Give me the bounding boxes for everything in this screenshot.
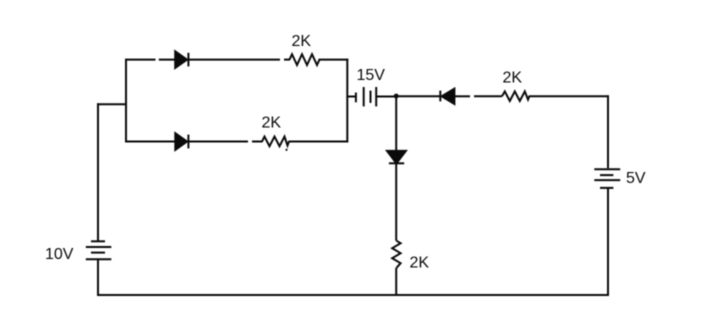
wire merge vertical (right side of diode branches) xyxy=(346,59,348,143)
wire top branch segment 4 xyxy=(284,59,290,61)
diode D4 (middle branch, pointing down) xyxy=(387,151,406,163)
wire top branch segment 1 xyxy=(125,59,156,61)
wire right rail lower xyxy=(607,188,609,296)
svg-text:5V: 5V xyxy=(626,170,646,187)
resistor R3 2K (top-right branch) xyxy=(502,91,529,101)
node junction dot xyxy=(394,94,399,99)
resistor R2 2K (lower branch) xyxy=(262,137,289,147)
wire left rail vertical (to 10V battery) xyxy=(97,103,99,240)
wire top-right branch segment 2 xyxy=(454,95,470,97)
wire top-right branch segment 4 xyxy=(529,95,609,97)
svg-text:2K: 2K xyxy=(262,115,282,132)
wire middle branch center xyxy=(395,163,397,240)
svg-text:10V: 10V xyxy=(45,246,74,263)
wire top-right branch segment 3 xyxy=(474,95,502,97)
wire middle branch lower xyxy=(395,268,397,296)
wire lower branch segment 2 xyxy=(188,141,248,143)
diode D3 (top-right branch, pointing left) xyxy=(440,89,454,104)
diode D1 (top branch, pointing right) xyxy=(175,51,188,68)
wire top branch segment 3 xyxy=(188,59,280,61)
battery B3 5V xyxy=(594,169,620,188)
wire split vertical (left side of diode branches) xyxy=(125,59,127,143)
resistor R1 2K (top branch) xyxy=(290,54,320,65)
wire right rail upper xyxy=(607,95,609,168)
wire bottom rail xyxy=(97,294,609,296)
diode D2 (lower branch, pointing right) xyxy=(175,133,188,150)
node stray mark below R2 xyxy=(285,149,287,151)
wire top-right branch segment 1 xyxy=(396,95,440,97)
wire lower branch segment 1 xyxy=(125,141,175,143)
wire middle branch upper xyxy=(395,96,397,151)
svg-text:2K: 2K xyxy=(292,33,312,50)
wire left rail horizontal connector xyxy=(97,103,127,105)
wire top branch segment 5 xyxy=(319,59,349,61)
svg-text:2K: 2K xyxy=(410,255,430,272)
wire lower branch segment 3 xyxy=(252,141,263,143)
wire top branch segment 2 xyxy=(159,59,176,61)
wire lower branch segment 4 xyxy=(289,141,349,143)
svg-text:15V: 15V xyxy=(357,67,386,84)
svg-text:2K: 2K xyxy=(503,70,523,87)
battery B1 10V xyxy=(86,241,112,259)
resistor R4 2K (middle branch, vertical) xyxy=(392,241,400,268)
wire below 10V battery xyxy=(97,259,99,296)
battery B2 15V (horizontal) xyxy=(347,87,396,106)
